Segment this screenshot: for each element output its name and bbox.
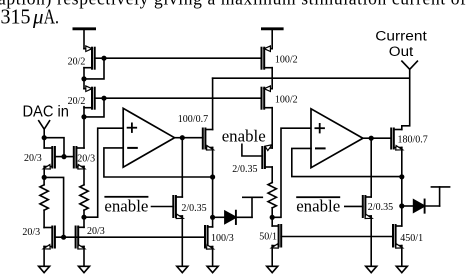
diode D2	[402, 200, 440, 213]
svg-text:2/0.35: 2/0.35	[232, 164, 257, 175]
wire mirror gate rail B (second)	[104, 97, 261, 99]
wire 50/1 drain up to R3 node	[271, 217, 273, 226]
wire DAC node to T1/T2 gates	[44, 138, 64, 157]
nmos B2 20/3 (bottom mirror right)	[76, 227, 85, 250]
wire mirror gate rail A (top)	[104, 57, 261, 59]
node dot diode tap right	[399, 203, 404, 208]
node dot M1 gate rail	[101, 56, 106, 61]
nmos T2 20/3 (cascode, input branch)	[64, 147, 85, 169]
ground E1	[177, 266, 188, 272]
nmos O3 450/1 (output device far right)	[393, 225, 403, 248]
diode D1	[213, 211, 252, 224]
wire op2 output down to enable-bar transistor	[370, 138, 372, 197]
node dot M2 gate rail	[101, 96, 106, 101]
wire P1 drain to P2 source	[271, 68, 273, 89]
wire enable-bar to E1 gate	[152, 206, 174, 208]
svg-text:20/3: 20/3	[77, 154, 95, 165]
wire B1 source to ground	[43, 247, 45, 267]
svg-text:enable: enable	[296, 196, 340, 215]
nmos T1 20/3 (diode-connected, DAC input branch)	[43, 147, 64, 169]
node dot T1-T2 gate junction	[61, 154, 66, 159]
wire 100/3 drain up	[212, 217, 214, 227]
nmos C1 100/0.7 (regulated cascode left)	[203, 129, 214, 151]
op-amp U2 (right)	[311, 109, 363, 168]
svg-text:20/2: 20/2	[68, 56, 86, 67]
node DAC in input pin	[39, 121, 50, 141]
wire op1 output down to enable-bar transistor	[181, 138, 183, 197]
svg-text:μ: μ	[32, 4, 44, 28]
resistor R3	[268, 183, 276, 218]
node dot op2 output	[369, 136, 374, 141]
resistor R1	[40, 177, 48, 227]
svg-text:100/3: 100/3	[211, 233, 234, 244]
svg-text:DAC in: DAC in	[22, 103, 69, 120]
wire M1 gate-drain tie	[84, 58, 104, 79]
pmos M2 20/2 (second diode-connected mirror device)	[84, 86, 104, 109]
VDD supply symbol left	[74, 29, 95, 49]
wire 450/1 source to ground	[401, 246, 403, 267]
nmos E3 2/0.35 (enable-bar pulldown right)	[363, 196, 372, 219]
wire between feedback node and diode tap	[212, 177, 214, 217]
ground B2	[79, 266, 90, 272]
electrode terminal right	[431, 187, 449, 206]
wire op2 - input feedback to output cascode source	[292, 148, 402, 176]
svg-text:2/0.35: 2/0.35	[181, 203, 206, 214]
wire DAC node down to T1 drain	[43, 138, 45, 148]
op-amp U1 (left)	[123, 108, 174, 167]
svg-text:450/1: 450/1	[400, 233, 423, 244]
wire 100/3 source to ground	[212, 247, 214, 267]
electrode terminal left	[243, 197, 262, 217]
wire bias from R1 top to bottom mirror gates	[44, 177, 63, 237]
node dot op1 output	[180, 135, 185, 140]
wire op1 output	[175, 137, 183, 139]
svg-text:20/3: 20/3	[87, 226, 105, 237]
wire mid rail to Current Out	[213, 77, 410, 79]
svg-text:Out: Out	[389, 44, 414, 59]
node dot M2 drain	[81, 114, 86, 119]
svg-text:100/2: 100/2	[275, 55, 298, 66]
svg-text:100/2: 100/2	[275, 95, 298, 106]
wire B2 source to ground	[83, 247, 85, 267]
svg-text:enable: enable	[222, 126, 266, 145]
wire op1 output to 100/0.7 gate	[182, 137, 203, 139]
nmos E1 2/0.35 (enable-bar pulldown left)	[173, 196, 183, 219]
wire op2 output	[363, 137, 371, 139]
nmos E2 2/0.35 (enable switch, source up)	[262, 145, 272, 168]
wire P2 drain down to E2	[271, 108, 273, 148]
svg-text:100/0.7: 100/0.7	[178, 114, 208, 125]
wire enable-bar to E3 gate	[345, 205, 363, 207]
wire E1 source to ground	[181, 216, 183, 266]
svg-text:Current: Current	[375, 29, 427, 44]
wire op1 - input feedback to cascode source	[104, 148, 213, 177]
pmos P1 100/2 (output mirror top)	[262, 46, 273, 69]
svg-text:315: 315	[1, 4, 31, 28]
wire node down to B2 drain	[83, 217, 85, 227]
wire M2 drain down to T2 drain	[83, 107, 85, 117]
pmos M1 20/2 (diode-connected mirror input, top left)	[84, 46, 104, 69]
nmos O1 100/3 (output device left branch)	[205, 226, 213, 249]
wire M1 source from node	[83, 79, 85, 89]
node dot T1 source / R1 top	[42, 175, 47, 180]
ground B1	[39, 266, 50, 272]
wire C2 source down	[401, 148, 403, 177]
wire C2 drain to current out	[402, 69, 410, 129]
node dot R3 bottom / 50-1 drain	[270, 215, 275, 220]
node dot R2 bottom / B2 drain	[81, 215, 86, 220]
svg-text:2/0.35: 2/0.35	[368, 202, 393, 213]
wire op2 output to 180/0.7 gate	[371, 137, 391, 139]
label enable-bar (left)	[104, 196, 148, 216]
ground 100/3	[207, 266, 218, 272]
wire bottom mirror gate rail (left)	[55, 236, 205, 238]
wire between right feedback node and diode tap	[401, 177, 403, 206]
label enable-bar (right)	[296, 196, 340, 215]
svg-text:50/1: 50/1	[259, 232, 277, 243]
ground 450/1	[396, 266, 407, 272]
wire C1 source down	[212, 148, 214, 178]
wire enable label to E2 gate	[242, 144, 262, 156]
svg-text:20/3: 20/3	[24, 153, 42, 164]
node dot M1 drain	[81, 76, 86, 81]
node dot diode tap left	[210, 215, 215, 220]
wire op2 + input feedback from R3 bottom node	[272, 128, 311, 217]
wire E2 drain down to R3	[271, 167, 273, 183]
nmos B1 20/3 (bottom mirror left)	[43, 227, 55, 250]
nmos O2 50/1 (output device right branch)	[271, 225, 281, 248]
svg-text:aption) respectively giving a: aption) respectively giving a maximum st…	[0, 0, 466, 8]
resistor R2	[80, 185, 88, 217]
wire E3 source to ground	[370, 216, 372, 266]
wire C1 drain up to mid rail	[212, 78, 214, 129]
svg-text:20/3: 20/3	[22, 227, 40, 238]
VDD supply symbol right	[262, 29, 282, 49]
wire T1 source to node	[43, 167, 45, 178]
ground E3	[366, 266, 377, 272]
node Current Out pin	[402, 61, 418, 69]
wire T2 source to R2	[83, 167, 85, 185]
ground 50/1	[267, 266, 278, 272]
wire op1 + input feedback from R2 bottom node	[84, 128, 123, 217]
wire bottom mirror gate rail (right)	[281, 236, 393, 238]
wire 450/1 drain up	[401, 206, 403, 226]
wire M1 drain to node	[83, 68, 85, 79]
pmos P2 100/2 (output mirror cascode)	[262, 86, 273, 109]
node dot output cascode source feedback	[399, 174, 404, 179]
svg-text:180/0.7: 180/0.7	[398, 135, 428, 146]
node dot bottom gate rail junction	[61, 235, 66, 240]
svg-text:20/2: 20/2	[68, 96, 86, 107]
nmos C2 180/0.7 (output cascode)	[391, 129, 402, 151]
wire M2 gate-drain tie	[84, 98, 104, 117]
svg-text:A.: A.	[44, 4, 59, 28]
wire 50/1 source to ground	[271, 246, 273, 267]
node dot cascode source feedback	[210, 174, 215, 179]
svg-text:enable: enable	[104, 197, 148, 216]
